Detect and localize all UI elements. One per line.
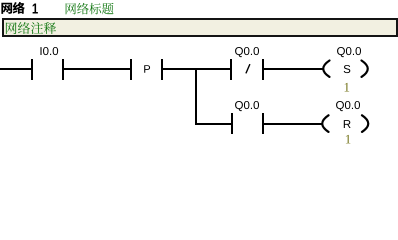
label I0.0 [40, 47, 58, 55]
edge contact letter P [144, 65, 150, 73]
network header label "网络 1" [1, 2, 37, 14]
wire: branch down to rung-2 contact Q0.0 [195, 123, 231, 125]
coil R operand count 1 [346, 135, 351, 144]
coil S parentheses [323, 61, 368, 77]
wire: contact I0.0 to contact P [64, 68, 130, 70]
contact Q0.0 normally closed bars [230, 59, 264, 80]
contact P (positive edge) bars [130, 59, 163, 80]
label Q0.0 above coil R [336, 101, 360, 111]
branch vertical wire at junction [195, 68, 197, 125]
coil R letter [344, 120, 351, 128]
coil R parentheses [322, 115, 368, 132]
contact Q0.0 rung 2 (normally open) bars [231, 113, 264, 134]
label Q0.0 above rung-2 contact [235, 101, 259, 111]
wire: left rail to contact I0.0 [0, 68, 31, 70]
NC contact slash [246, 64, 250, 73]
coil S letter [344, 65, 351, 73]
wire: rung-2 contact Q0.0 to coil R [264, 123, 322, 125]
label Q0.0 above NC contact [235, 47, 259, 57]
wire: contact P to NC contact Q0.0, with branch junction [163, 68, 230, 70]
network comment box [2, 18, 398, 37]
network comment text "网络注释" [6, 22, 56, 34]
contact I0.0 (normally open) [31, 59, 64, 80]
coil S operand count 1 [345, 83, 350, 92]
label Q0.0 above coil S [337, 47, 361, 57]
wire: NC contact Q0.0 to coil S [264, 68, 323, 70]
network title text "网络标题" [66, 3, 114, 14]
